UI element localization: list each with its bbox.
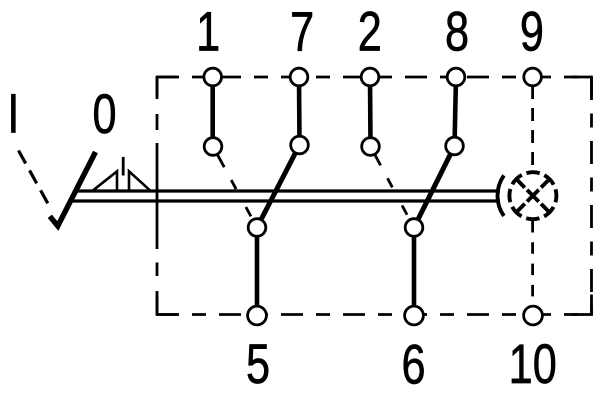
- svg-text:I: I: [7, 82, 19, 144]
- svg-text:10: 10: [509, 333, 557, 395]
- svg-text:6: 6: [401, 333, 425, 395]
- svg-text:1: 1: [196, 0, 220, 62]
- svg-text:7: 7: [290, 0, 314, 62]
- svg-text:9: 9: [520, 0, 544, 62]
- svg-text:0: 0: [92, 83, 116, 145]
- svg-text:2: 2: [358, 0, 382, 62]
- svg-text:8: 8: [445, 0, 469, 62]
- svg-text:5: 5: [246, 333, 270, 395]
